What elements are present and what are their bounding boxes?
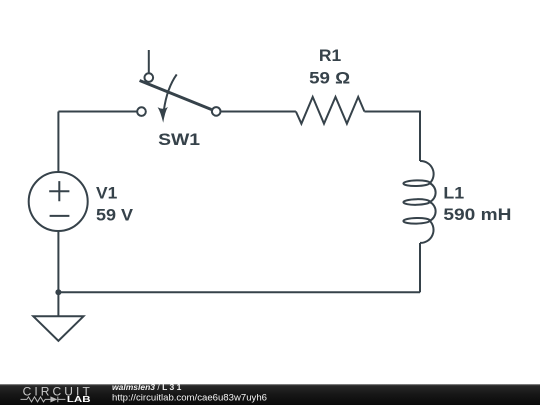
switch SW1 left contact circle	[137, 107, 146, 116]
logo diode triangle	[50, 396, 57, 402]
logo squiggle	[21, 397, 66, 403]
junction dot	[55, 289, 61, 295]
switch SW1 pivot circle	[145, 73, 154, 82]
wire junction-to-ground	[57, 292, 59, 316]
inductor loop 1	[403, 180, 430, 186]
svg-text:SW1: SW1	[158, 131, 200, 149]
inductor L1	[420, 161, 436, 243]
svg-text:http://circuitlab.com/cae6u83w: http://circuitlab.com/cae6u83w7uyh6	[112, 392, 267, 402]
svg-text:R1: R1	[319, 47, 341, 65]
V1 plus sign	[49, 181, 69, 201]
switch SW1 actuation arc	[164, 74, 177, 110]
inductor loop 2	[403, 199, 430, 205]
svg-text:L1: L1	[443, 184, 464, 202]
wire resistor-to-corner	[364, 111, 420, 113]
svg-text:walmslen3 / L 3 1: walmslen3 / L 3 1	[112, 382, 182, 392]
switch SW1 lever bar	[140, 81, 212, 110]
wire top-left horizontal	[58, 111, 137, 113]
wire left vertical top	[57, 112, 59, 172]
switch SW1 right contact circle	[212, 107, 221, 116]
inductor loop 3	[403, 218, 430, 224]
svg-text:59 Ω: 59 Ω	[309, 70, 350, 88]
svg-text:59 V: 59 V	[96, 206, 133, 224]
svg-text:590 mH: 590 mH	[443, 206, 511, 224]
V1 minus sign	[50, 215, 70, 217]
switch SW1 arrowhead	[158, 107, 168, 123]
wire right vertical top	[419, 111, 421, 162]
svg-text:V1: V1	[96, 185, 117, 203]
resistor R1	[296, 97, 365, 124]
wire bottom horizontal	[58, 291, 420, 293]
wire left vertical bottom	[57, 232, 59, 293]
ground	[33, 316, 83, 341]
wire switch-to-resistor	[221, 111, 296, 113]
svg-text:LAB: LAB	[67, 395, 91, 404]
voltage source V1	[29, 172, 88, 231]
switch SW1 top stub	[148, 50, 150, 73]
footer bar	[0, 384, 540, 405]
wire right vertical bottom	[419, 243, 421, 292]
